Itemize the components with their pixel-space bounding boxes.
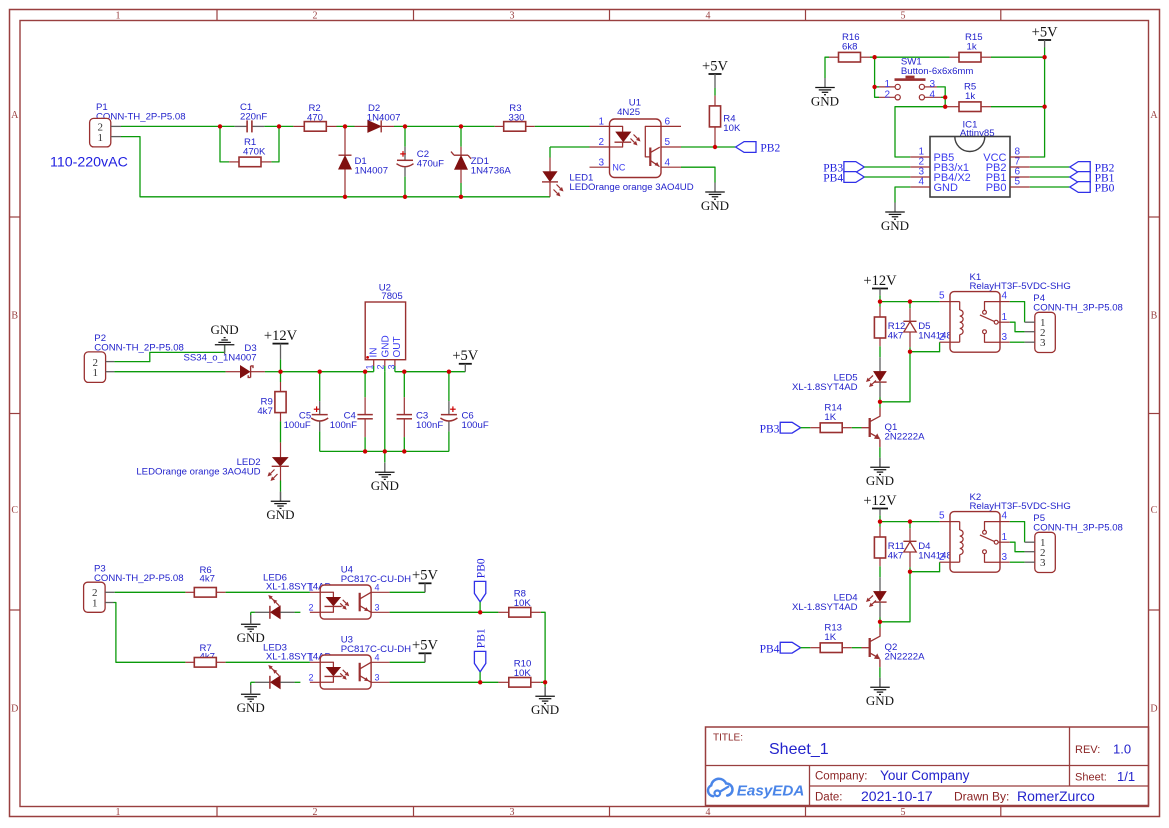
power +12V above K1	[872, 288, 888, 290]
wire IC1 pin6 to PB1	[1030, 176, 1070, 178]
svg-text:PB0: PB0	[1095, 183, 1115, 195]
LED3 XL-1.8SYT4AD with ground	[250, 685, 252, 695]
svg-text:GND: GND	[811, 93, 839, 108]
LED4 XL-1.8SYT4AD	[879, 577, 881, 591]
svg-text:PB0: PB0	[986, 182, 1007, 194]
resistor R13 1K	[810, 647, 820, 649]
svg-text:SS34_o_1N4007: SS34_o_1N4007	[184, 352, 257, 363]
svg-text:5: 5	[665, 137, 671, 148]
svg-text:4: 4	[665, 157, 671, 168]
net flag PB3	[780, 422, 800, 433]
svg-text:1: 1	[308, 653, 313, 663]
svg-text:5: 5	[1015, 177, 1021, 188]
svg-text:4: 4	[1002, 290, 1008, 301]
svg-text:5: 5	[901, 807, 906, 818]
EasyEDA logo	[708, 779, 732, 797]
svg-text:NC: NC	[612, 163, 625, 173]
svg-text:Sheet:: Sheet:	[1075, 772, 1107, 784]
wire relay pin1 to P4 pin2	[1010, 322, 1025, 332]
wire U1 pin4 to GND	[681, 167, 715, 182]
svg-text:PB2: PB2	[760, 143, 780, 155]
wire relay pin3 to P5 pin3	[1010, 561, 1025, 563]
wire SW1 pins 1,2	[875, 57, 879, 97]
svg-text:EasyEDA: EasyEDA	[737, 783, 805, 800]
capacitor C5 100uF	[319, 372, 321, 401]
power +5V above U3	[419, 652, 432, 654]
svg-text:4k7: 4k7	[200, 573, 215, 584]
svg-text:A: A	[1150, 110, 1158, 121]
svg-text:1: 1	[598, 117, 604, 128]
resistor R12 4k7	[879, 302, 881, 307]
wire R7 to U3 pin1	[226, 661, 310, 663]
resistor R9 4k7	[280, 372, 282, 382]
svg-text:2: 2	[939, 552, 945, 563]
svg-text:2: 2	[884, 89, 890, 100]
svg-text:110-220vAC: 110-220vAC	[50, 155, 128, 171]
resistor R4 10K	[714, 96, 716, 107]
svg-text:2N2222A: 2N2222A	[885, 652, 926, 663]
svg-text:1k: 1k	[965, 91, 975, 102]
wire SW1 node to IC1 PB5	[895, 107, 945, 157]
wire R16 to R15	[870, 56, 950, 58]
svg-text:3: 3	[510, 11, 515, 22]
wire R10 to GND	[541, 681, 545, 683]
net flag PB4 left of IC1	[844, 172, 864, 183]
svg-text:1: 1	[92, 597, 98, 609]
svg-text:C: C	[11, 505, 18, 516]
svg-text:CONN-TH_2P-P5.08: CONN-TH_2P-P5.08	[94, 573, 184, 584]
svg-text:4: 4	[375, 653, 380, 663]
wire R16 to GND	[825, 57, 829, 78]
wire U1 pin2 to LED1	[550, 146, 590, 148]
svg-text:2: 2	[308, 673, 313, 683]
svg-text:5: 5	[901, 11, 906, 22]
net flag PB1 right of IC1	[1070, 172, 1090, 183]
wire IC1 pin4 to GND	[895, 187, 910, 203]
svg-text:GND: GND	[531, 702, 559, 717]
svg-text:4: 4	[706, 11, 711, 22]
LED2 LEDOrange orange 3AO4UD	[280, 421, 282, 442]
svg-text:4k7: 4k7	[257, 406, 272, 417]
wire IC1 pin5 to PB0	[1030, 186, 1070, 188]
svg-text:2: 2	[313, 11, 318, 22]
wire U1 pin5 to PB2	[681, 146, 736, 148]
svg-text:D: D	[1150, 704, 1157, 715]
svg-text:2N2222A: 2N2222A	[885, 432, 926, 443]
svg-text:+12V: +12V	[863, 493, 897, 509]
LED5 XL-1.8SYT4AD	[879, 357, 881, 371]
svg-text:B: B	[1151, 311, 1158, 322]
power +12V above K2	[872, 508, 888, 510]
svg-text:+5V: +5V	[1032, 24, 1058, 40]
net flag PB3 left of IC1	[844, 162, 864, 173]
svg-text:PB4: PB4	[823, 173, 843, 185]
resistor R11 4k7	[879, 522, 881, 527]
svg-text:1k: 1k	[967, 42, 977, 53]
svg-text:1: 1	[364, 364, 374, 369]
svg-text:PB0: PB0	[476, 558, 488, 578]
wire relay pin4 to P5 pin1	[1010, 522, 1025, 543]
title block	[706, 727, 1149, 806]
wire U3 pin4 to +5V	[390, 661, 425, 663]
svg-text:GND: GND	[934, 182, 959, 194]
svg-text:3: 3	[1040, 557, 1046, 569]
power +5V right of U2	[459, 363, 472, 365]
net flag PB0 right of IC1	[1070, 182, 1090, 193]
svg-text:3: 3	[510, 807, 515, 818]
svg-text:Sheet_1: Sheet_1	[769, 741, 829, 758]
wire R8 to GND rail	[541, 612, 545, 682]
wire P3 pin2 to R6	[115, 591, 186, 593]
svg-text:LEDOrange orange 3AO4UD: LEDOrange orange 3AO4UD	[569, 182, 693, 193]
wire U2 OUT to +5V	[395, 371, 465, 373]
svg-text:Company:: Company:	[815, 771, 867, 783]
svg-text:XL-1.8SYT4AD: XL-1.8SYT4AD	[792, 382, 858, 393]
svg-text:+5V: +5V	[412, 638, 438, 654]
svg-text:1K: 1K	[824, 632, 836, 643]
wire D5 to relay pin2	[910, 342, 940, 352]
svg-text:3: 3	[375, 603, 380, 613]
svg-text:4k7: 4k7	[888, 331, 903, 342]
svg-text:6: 6	[665, 117, 671, 128]
ground GND below LED2	[280, 492, 282, 502]
svg-text:OUT: OUT	[392, 336, 403, 357]
wire relay pin1 to P5 pin2	[1010, 542, 1025, 552]
svg-text:1N4148: 1N4148	[918, 331, 952, 342]
capacitor C4 100nF	[364, 372, 366, 398]
svg-text:4: 4	[918, 177, 924, 188]
svg-text:RelayHT3F-5VDC-SHG: RelayHT3F-5VDC-SHG	[970, 281, 1071, 292]
wire +12V rail to U2 IN	[281, 371, 374, 373]
svg-text:Date:: Date:	[815, 792, 843, 804]
svg-text:2021-10-17: 2021-10-17	[861, 788, 933, 804]
wire PB3 to IC1 pin2	[864, 166, 910, 168]
ground GND below Q2	[879, 678, 881, 688]
svg-text:D: D	[11, 704, 18, 715]
wire capacitor ground rail	[320, 450, 449, 452]
LED6 XL-1.8SYT4AD with ground	[250, 615, 252, 625]
svg-text:+5V: +5V	[452, 348, 478, 364]
svg-text:GND: GND	[371, 478, 399, 493]
svg-text:RomerZurco: RomerZurco	[1017, 788, 1095, 804]
svg-text:+5V: +5V	[702, 58, 728, 74]
svg-text:TITLE:: TITLE:	[713, 733, 743, 744]
svg-text:Your Company: Your Company	[880, 768, 970, 783]
capacitor C3 100nF	[403, 372, 405, 398]
svg-text:4: 4	[375, 583, 380, 593]
svg-text:4k7: 4k7	[888, 551, 903, 562]
ground GND below U1	[714, 183, 716, 193]
wire D4 to relay pin2	[910, 562, 940, 572]
wire D3 to +12V node	[265, 371, 281, 373]
wire U4 pin3 to R8	[390, 611, 499, 613]
wire +12V rail to relay K1 pin5	[880, 301, 940, 303]
wire P2 pin2 to GND	[114, 345, 224, 362]
svg-text:GND: GND	[866, 473, 894, 488]
svg-text:1: 1	[1002, 532, 1008, 543]
svg-text:2: 2	[375, 364, 385, 369]
ground GND below Q1	[879, 458, 881, 468]
svg-text:GND: GND	[881, 218, 909, 233]
svg-text:3: 3	[1040, 337, 1046, 349]
wire R5 to +5V rail	[991, 106, 1045, 108]
ground GND below capacitor rail	[384, 463, 386, 473]
svg-text:470K: 470K	[243, 146, 266, 157]
resistor R14 1K	[810, 427, 820, 429]
svg-text:PB1: PB1	[476, 628, 488, 648]
wire U4 pin4 to +5V	[390, 591, 425, 593]
svg-text:7805: 7805	[381, 291, 402, 302]
wire R6 to U4 pin1	[226, 591, 310, 593]
svg-text:XL-1.8SYT4AD: XL-1.8SYT4AD	[792, 602, 858, 613]
svg-text:100nF: 100nF	[330, 420, 357, 431]
power +5V above U4	[419, 582, 432, 584]
wire U2 GND pin to rail	[384, 372, 386, 452]
svg-text:4: 4	[930, 89, 936, 100]
wire PB4 to IC1 pin3	[864, 176, 910, 178]
transistor Q2 2N2222A	[879, 622, 881, 628]
svg-text:B: B	[11, 311, 18, 322]
svg-text:3: 3	[375, 673, 380, 683]
svg-text:REV:: REV:	[1075, 744, 1100, 756]
svg-text:1: 1	[884, 79, 890, 90]
wire P2 pin1 to D3	[114, 371, 225, 373]
svg-text:470uF: 470uF	[417, 159, 444, 170]
wire U3 pin3 to R10	[390, 681, 499, 683]
svg-text:C: C	[1151, 505, 1158, 516]
svg-text:1.0: 1.0	[1113, 742, 1131, 757]
svg-text:2: 2	[939, 332, 945, 343]
svg-text:PB3: PB3	[760, 423, 780, 435]
svg-text:IN: IN	[368, 348, 379, 358]
svg-text:+5V: +5V	[412, 568, 438, 584]
power +5V above R4	[709, 73, 722, 75]
svg-text:100uF: 100uF	[284, 420, 311, 431]
wire relay pin3 to P4 pin3	[1010, 341, 1025, 343]
svg-text:1/1: 1/1	[1117, 769, 1135, 784]
svg-text:1: 1	[116, 807, 121, 818]
ground GND below IC1	[894, 203, 896, 213]
svg-text:1K: 1K	[824, 412, 836, 423]
svg-text:1: 1	[116, 11, 121, 22]
svg-text:LEDOrange orange 3AO4UD: LEDOrange orange 3AO4UD	[136, 467, 260, 478]
svg-text:GND: GND	[237, 700, 265, 715]
svg-text:GND: GND	[266, 507, 294, 522]
svg-text:3: 3	[1002, 332, 1008, 343]
svg-text:GND: GND	[866, 693, 894, 708]
svg-text:1N4007: 1N4007	[355, 166, 389, 177]
wire +5V rail down to IC1 VCC	[1030, 57, 1045, 157]
net flag PB2 right of IC1	[1070, 162, 1090, 173]
svg-text:4: 4	[1002, 510, 1008, 521]
svg-text:6k8: 6k8	[842, 42, 857, 53]
svg-text:100nF: 100nF	[416, 420, 443, 431]
net flag PB2	[736, 142, 756, 153]
svg-text:GND: GND	[701, 198, 729, 213]
svg-text:3: 3	[1002, 552, 1008, 563]
svg-text:1N4736A: 1N4736A	[471, 166, 512, 177]
svg-text:100uF: 100uF	[462, 420, 489, 431]
wire relay branch down	[880, 572, 910, 622]
svg-text:+12V: +12V	[264, 328, 298, 344]
svg-text:GND: GND	[211, 322, 239, 337]
svg-text:3: 3	[387, 364, 397, 369]
transistor Q1 2N2222A	[879, 402, 881, 408]
svg-text:RelayHT3F-5VDC-SHG: RelayHT3F-5VDC-SHG	[970, 501, 1071, 512]
diode D1 1N4007	[344, 126, 346, 155]
wire P3 pin1 to R7	[114, 603, 186, 663]
svg-text:4: 4	[706, 807, 711, 818]
capacitor C6 100uF	[448, 372, 450, 401]
wire AC neutral bottom rail	[121, 137, 550, 197]
svg-text:5: 5	[939, 290, 945, 301]
capacitor C2 470uF	[404, 126, 406, 146]
zener diode ZD1 1N4736A	[460, 126, 462, 146]
diode D5 1N4148	[909, 302, 911, 309]
svg-text:2: 2	[313, 807, 318, 818]
svg-text:GND: GND	[237, 630, 265, 645]
ground GND above P2 wire	[224, 345, 226, 355]
net flag PB4	[780, 642, 800, 653]
wire SW1 pins 3,4 to R5	[937, 87, 945, 107]
wire IC1 pin7 to PB2	[1030, 166, 1070, 168]
svg-text:+12V: +12V	[863, 273, 897, 289]
svg-text:1: 1	[93, 367, 99, 379]
junction dots	[218, 124, 222, 128]
ground GND below R16	[824, 78, 826, 88]
svg-text:GND: GND	[380, 335, 391, 357]
wire rail to GND	[384, 451, 386, 462]
wire +12V rail to relay K2 pin5	[880, 521, 940, 523]
LED1 LEDOrange orange 3AO4UD	[549, 147, 551, 158]
power +5V top right	[1038, 39, 1051, 41]
net flag PB0	[474, 581, 485, 602]
net flag PB1	[474, 651, 485, 672]
svg-text:3: 3	[598, 157, 604, 168]
svg-text:2: 2	[598, 137, 604, 148]
svg-text:4N25: 4N25	[617, 107, 640, 118]
svg-text:A: A	[11, 110, 19, 121]
svg-text:3: 3	[930, 79, 936, 90]
ground GND right of R10	[544, 687, 546, 697]
svg-text:1: 1	[308, 583, 313, 593]
wire AC line top rail	[121, 125, 235, 127]
svg-text:2: 2	[308, 603, 313, 613]
svg-text:Button-6x6x6mm: Button-6x6x6mm	[901, 66, 974, 77]
wire relay pin4 to P4 pin1	[1010, 302, 1025, 323]
wire relay branch down	[880, 352, 910, 402]
wire R15 to +5V	[991, 56, 1045, 58]
svg-text:10K: 10K	[723, 123, 741, 134]
svg-text:220nF: 220nF	[240, 111, 267, 122]
svg-text:1N4148: 1N4148	[918, 551, 952, 562]
svg-text:1: 1	[98, 132, 104, 144]
diode D4 1N4148	[909, 522, 911, 529]
svg-text:PB4: PB4	[760, 643, 780, 655]
svg-text:Drawn By:: Drawn By:	[954, 790, 1009, 804]
svg-text:5: 5	[939, 510, 945, 521]
svg-text:1: 1	[1002, 312, 1008, 323]
power +12V above rail	[273, 343, 289, 345]
